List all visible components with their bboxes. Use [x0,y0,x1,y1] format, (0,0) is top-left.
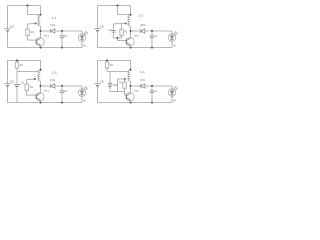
junction dot coil tap [35,22,37,24]
battery GB [94,83,100,85]
wire RC bottom join [114,37,122,39]
wire coil top riser [130,6,132,16]
wire emitter down [40,100,42,102]
junction dot capacitor/bottom [61,47,63,49]
wire coil bottom to collector [40,81,42,93]
wire output left segment [41,85,51,87]
wire branch to coil [107,71,128,73]
wire LED to bottom [171,41,173,47]
svg-text:R1: R1 [124,30,128,34]
wire emitter down [130,45,132,47]
transistor VT1 [126,93,134,101]
wire box left vertical [117,79,119,92]
wire box bottom [110,91,125,93]
junction dot coil tap [34,78,36,80]
svg-text:HL: HL [83,98,87,102]
diode VD1 [140,84,142,88]
battery GB [4,83,10,85]
junction dot output branch [130,85,132,87]
junction dot emitter/bottom [40,47,42,49]
wire output right segment [55,30,82,32]
wire branch vertical [27,6,29,15]
resistor R1 [124,79,126,82]
wire output right segment [145,85,172,87]
wire left rail (battery column) [7,6,9,29]
diode VD1 [50,29,52,33]
wire output right segment [55,85,82,87]
resistor R1 [26,29,29,35]
wire to base [124,92,126,96]
svg-text:GB: GB [100,80,104,84]
wire bottom rail [8,102,83,104]
capacitor C2 [113,24,115,30]
svg-text:C1: C1 [154,89,158,93]
wire left rail (battery column) [97,6,99,29]
svg-text:VD1: VD1 [140,23,146,27]
wire emitter down [40,45,42,47]
capacitor C1 [61,31,63,36]
junction dot branch top [117,5,119,7]
inductor coil T1 [38,70,40,81]
wire LED to bottom [171,96,173,102]
svg-text:VT1: VT1 [44,89,49,93]
wire R2 down [16,68,18,84]
junction dot capacitor/bottom [151,102,153,104]
wire bottom rail [98,102,173,104]
junction dot emitter/bottom [130,102,132,104]
wire output left segment [131,30,141,32]
wire branch to coil top [118,14,131,16]
LED HL1 [168,34,175,41]
svg-text:HL: HL [83,43,87,47]
svg-text:C1: C1 [64,89,68,93]
junction dot branch top [16,60,18,62]
junction dot capacitor top [151,30,153,32]
wire coil bottom to collector [40,26,42,38]
junction dot capacitor/bottom [61,102,63,104]
transistor VT1 [36,38,44,46]
wire R2 down [106,68,108,72]
junction dot coil top [130,69,132,71]
svg-text:VT1: VT1 [44,34,49,38]
diode VD1 [50,84,52,88]
svg-text:VD1: VD1 [140,78,146,82]
svg-text:VD1: VD1 [50,78,56,82]
svg-text:C2: C2 [21,81,25,85]
junction dot branch top [27,5,29,7]
junction dot capacitor top [151,85,153,87]
inductor coil T1 [128,70,130,81]
wire R1 top to tap [27,78,35,80]
svg-text:VD2: VD2 [112,83,118,87]
junction dot coil top [40,14,42,16]
svg-text:C2: C2 [108,28,112,32]
svg-text:1-2: 1-2 [139,13,144,17]
junction dot RC bottom [117,37,119,39]
junction dot output branch [130,30,132,32]
inductor coil T1 [128,15,130,26]
wire left rail (battery column) [97,61,99,84]
junction dot coil top [130,14,132,16]
wire coil tap to R1 [28,23,36,26]
junction dot capacitor/bottom [151,47,153,49]
resistor R1 [25,84,28,91]
junction dot emitter/bottom [40,102,42,104]
junction dot output branch [40,85,42,87]
LED HL1 [168,89,175,96]
wire emitter down [130,100,132,102]
battery GB [94,28,100,30]
wire top rail circuit 1-4 [98,60,131,62]
junction dot branch top [106,60,108,62]
junction dot emitter/bottom [130,47,132,49]
wire coil bottom to collector [130,81,132,93]
wire LED drop [81,31,83,34]
svg-text:HL: HL [173,43,177,47]
svg-text:VT1: VT1 [134,89,139,93]
wire top rail circuit 1-1 [8,5,41,7]
wire tap horizontal [118,78,125,80]
capacitor C1 [151,86,153,91]
LED HL1 [78,34,85,41]
diode VD2 [109,72,111,83]
capacitor C1 [61,86,63,91]
wire output left segment [131,85,141,87]
svg-text:R1: R1 [31,30,35,34]
svg-text:GB: GB [10,25,14,29]
junction dot capacitor top [61,30,63,32]
wire top rail circuit 1-3 [8,60,41,62]
svg-text:R2: R2 [20,63,24,67]
transistor VT1 [126,38,134,46]
wire LED drop [81,86,83,89]
wire output right segment [145,30,172,32]
svg-text:R2: R2 [110,63,114,67]
junction dot capacitor top [61,85,63,87]
capacitor C1 [151,31,153,36]
wire LED to bottom [81,41,83,47]
transistor VT1 [36,93,44,101]
svg-text:1-1: 1-1 [52,16,57,20]
inductor coil T1 [38,15,40,26]
svg-text:VT1: VT1 [134,34,139,38]
wire resistor to base [27,36,29,41]
wire branch vertical [117,6,119,15]
wire bottom rail [98,47,173,49]
wire bottom rail [8,47,83,49]
junction dot coil tap [124,78,126,80]
capacitor C2 [14,83,21,85]
wire left rail (battery column) [7,61,9,84]
wire LED to bottom [81,96,83,102]
wire coil bottom to collector [130,26,132,38]
wire output left segment [41,30,51,32]
wire branch to coil [17,71,38,73]
svg-text:C1: C1 [154,34,158,38]
wire coil top riser [40,61,42,71]
svg-text:HL: HL [173,98,177,102]
battery GB [4,28,10,30]
LED HL1 [78,89,85,96]
wire coil top riser [40,6,42,16]
junction dot coil tap [125,22,127,24]
wire coil tap to RC [114,23,126,25]
resistor R2 [106,61,108,63]
svg-text:R1: R1 [30,85,34,89]
junction dot coil top [40,69,42,71]
svg-text:GB: GB [10,80,14,84]
svg-text:GB: GB [100,25,104,29]
wire to base [117,38,119,41]
svg-text:VD1: VD1 [50,23,56,27]
svg-text:C1: C1 [64,34,68,38]
svg-text:1-4: 1-4 [140,70,145,74]
wire LED drop [171,31,173,34]
wire LED drop [171,86,173,89]
resistor R2 [16,61,18,63]
wire top rail circuit 1-2 [98,5,131,7]
diode VD1 [140,29,142,33]
junction dot output branch [40,30,42,32]
resistor R1 [121,24,123,30]
svg-text:1-3: 1-3 [52,70,57,74]
wire coil top riser [130,61,132,71]
wire branch to coil top [28,14,41,16]
wire resistor to base [26,91,28,96]
